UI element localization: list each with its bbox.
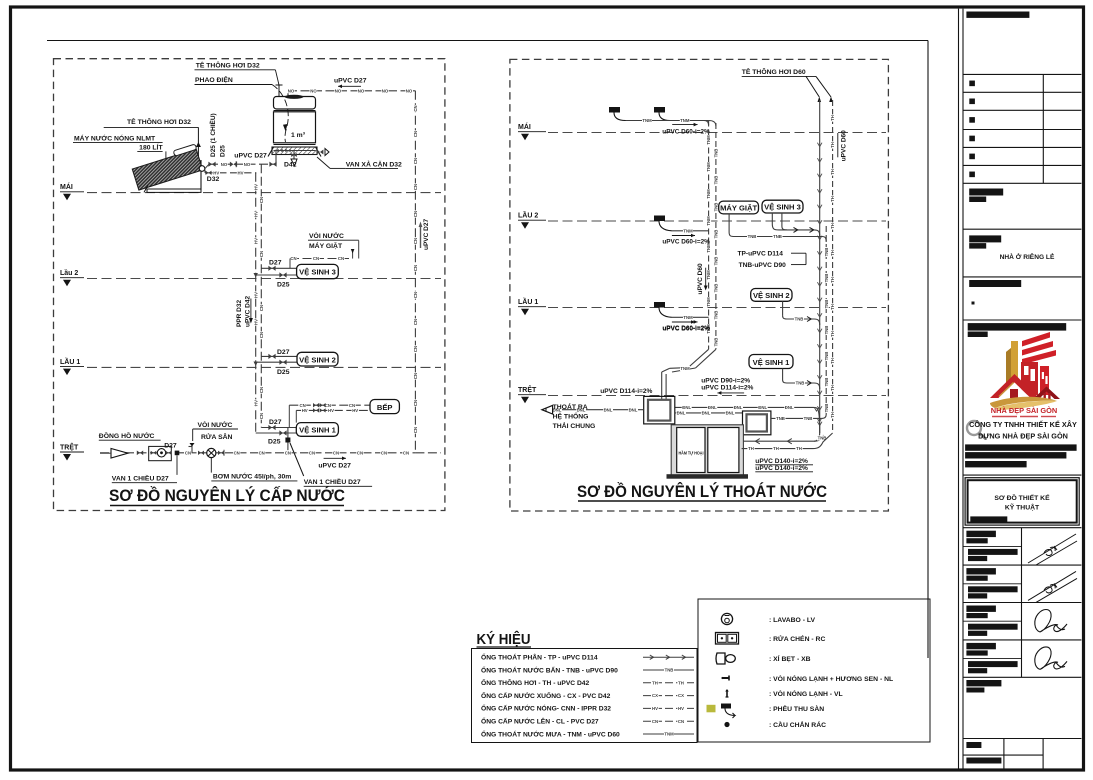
svg-text:: XÍ BẸT - XB: : XÍ BẸT - XB [769,654,811,663]
svg-text:uPVC D27: uPVC D27 [318,462,351,469]
svg-text:TNM: TNM [664,732,674,737]
heater collector connection node [199,166,205,172]
signature table [963,527,1081,529]
svg-text:D25: D25 [277,369,290,376]
label BOM NUOC 45l/ph, 30m [210,458,212,473]
svg-text:CN: CN [185,450,191,455]
svg-text:CX: CX [652,693,658,698]
svg-text:uPVC D140-i=2%: uPVC D140-i=2% [755,465,808,472]
signature scribble 2 [1035,647,1067,670]
roof drain 1 (phieu thu san) [609,107,620,113]
svg-text:VỆ SINH 3: VỆ SINH 3 [764,203,801,212]
svg-text:TNB: TNB [773,234,782,239]
svg-text:TH: TH [830,385,835,391]
svg-text:HV: HV [253,238,258,244]
svg-text:TNB: TNB [714,149,719,158]
svg-text:D25: D25 [277,282,290,289]
svg-text:CN: CN [413,427,418,433]
svg-text:MÁY GIẶT: MÁY GIẶT [720,204,757,213]
approval sketch 1 [1028,534,1077,565]
svg-text:BẾP: BẾP [377,402,393,412]
svg-text:TH: TH [830,358,835,364]
svg-text:VỆ SINH 1: VỆ SINH 1 [299,426,336,435]
table row bullet 3 [969,117,975,123]
manhole 1 (ho ga) [644,396,675,424]
svg-text:ĐNL: ĐNL [702,411,711,416]
rain collector pipe [626,120,709,122]
svg-text:CÔNG TY TNHH THIẾT KẾ XÂY: CÔNG TY TNHH THIẾT KẾ XÂY [969,419,1077,429]
vent stack TH uPVC D42 [832,100,834,430]
pipe to VS1 (D27) [261,427,296,429]
svg-text:CN: CN [413,346,418,352]
soil stack TP uPVC D114 (chevron line) [819,100,821,433]
svg-text:CN: CN [259,251,264,257]
legend symbol voi nong lanh VL [726,690,728,697]
svg-text:TH: TH [830,115,835,121]
svg-text:SƠ ĐỒ NGUYÊN LÝ CẤP NƯỚC: SƠ ĐỒ NGUYÊN LÝ CẤP NƯỚC [109,486,345,505]
svg-text:CN: CN [259,413,264,419]
svg-text:TNM: TNM [683,228,693,233]
svg-text:TNM: TNM [706,297,711,307]
legend symbol cau chan rac [724,722,729,727]
pipe to VS3 (D25 hot) [256,274,297,276]
svg-text:TH: TH [830,304,835,310]
tank inlet stub [287,91,289,97]
svg-text:D42: D42 [284,162,297,169]
drain branch to TNM riser [672,230,709,232]
tank top float cap [285,95,304,99]
tank drain valve D42 [293,151,295,160]
valve (tank outlet) [269,162,276,167]
svg-text:MÁI: MÁI [60,182,73,191]
svg-text:HV: HV [253,319,258,325]
table row bullet 1 [969,81,975,87]
svg-text:ĐNL: ĐNL [726,411,735,416]
section: cong trinh NHA O RIENG LE [969,235,1001,242]
svg-text:TRỆT: TRỆT [518,385,537,394]
legend symbol xi bet (toilet) [716,653,725,664]
label uPVC D27 (tret) [324,457,346,459]
junction node [175,451,180,456]
svg-text:CN: CN [259,450,265,455]
svg-text:CN: CN [652,719,658,724]
svg-text:CN: CN [413,105,418,111]
svg-text:TH: TH [830,196,835,202]
svg-text:BƠM NƯỚC 45l/ph, 30m: BƠM NƯỚC 45l/ph, 30m [213,472,291,481]
floor line LAU 2 (right diagram) [548,220,886,222]
septic tank HAM TU HOAI [671,425,743,476]
svg-text:uPVC D27: uPVC D27 [234,153,267,160]
svg-text:180 LÍT: 180 LÍT [139,143,163,152]
svg-text:NO: NO [406,88,413,93]
tank vent pipe [275,70,279,85]
floor line MAI (left diagram) [87,192,441,194]
svg-text:CN: CN [290,256,296,261]
svg-text:uPVC D42: uPVC D42 [244,296,251,327]
stack elbow into sewer line [812,407,820,433]
svg-text:CN: CN [413,184,418,190]
right diagram dashed boundary [510,59,889,511]
svg-text:TNM: TNM [706,135,711,145]
fixture box VE SINH 1 [296,423,338,437]
svg-text:TNB: TNB [714,338,719,347]
svg-text:TNB: TNB [824,326,829,335]
title block info table [963,73,1081,75]
svg-text:CN: CN [413,319,418,325]
svg-text:TNB: TNB [748,234,757,239]
sewer line manhole1 to manhole2 [675,412,743,414]
svg-text:THẢI CHUNG: THẢI CHUNG [553,421,596,430]
svg-text:uPVC D60-i=2%: uPVC D60-i=2% [662,129,710,136]
svg-text:CN: CN [403,450,409,455]
svg-text:TH: TH [830,412,835,418]
VS1 waste drop [782,369,784,381]
svg-text:TNB: TNB [665,668,674,673]
septic inlet line (TP+TNB) [743,440,814,442]
title block top section (project name, redacted) [966,12,1029,18]
PHAO DIEN float leader (dashed curve) [272,85,288,143]
pipe to VS2 (D25) [256,361,297,363]
svg-text:TNB: TNB [824,248,829,257]
svg-text:DỰNG NHÀ ĐẸP SÀI GÒN: DỰNG NHÀ ĐẸP SÀI GÒN [978,432,1068,441]
svg-text:VỆ SINH 2: VỆ SINH 2 [299,355,336,364]
floor drain (phieu thu san) [654,216,665,222]
svg-text:CN: CN [309,450,315,455]
svg-text:SƠ ĐỒ NGUYÊN LÝ THOÁT NƯỚC: SƠ ĐỒ NGUYÊN LÝ THOÁT NƯỚC [577,482,827,501]
svg-text:CN: CN [313,256,319,261]
sewer line DNL (stack to manhole 1) [675,406,812,408]
svg-text:VỆ SINH 1: VỆ SINH 1 [753,358,790,367]
manhole 2 (ho ga) [743,411,771,435]
table row bullet 5 [969,154,975,160]
floor line MAI (right diagram) [548,132,886,134]
svg-text:CN: CN [413,131,418,137]
svg-text:KỸ THUẬT: KỸ THUẬT [1005,503,1040,512]
label uPVC D60-i=2% [672,321,695,323]
svg-text:ĐNL: ĐNL [604,407,613,412]
svg-text:TNM: TNM [642,118,652,123]
svg-text:TNB: TNB [776,416,785,421]
water tank base (hatched skid) [272,147,317,155]
svg-text:: RỬA CHÉN - RC: : RỬA CHÉN - RC [769,634,825,643]
legend symbol box [698,599,930,742]
svg-text:ĐNL: ĐNL [785,405,794,410]
svg-text:uPVC D140-i=2%: uPVC D140-i=2% [755,458,808,465]
svg-text:HV: HV [652,706,658,711]
notes section (redacted) [966,680,1001,686]
svg-text:uPVC D90-i=2%: uPVC D90-i=2% [701,377,750,384]
drop from VS1 branch to main [287,428,289,453]
svg-text:NO: NO [310,88,317,93]
svg-text:TP-uPVC D114: TP-uPVC D114 [738,251,784,258]
svg-text:RỬA SÂN: RỬA SÂN [201,432,233,441]
svg-text:CN: CN [259,332,264,338]
legend line-type box [472,649,698,743]
svg-text:TH: TH [830,331,835,337]
svg-text:ĐNL: ĐNL [629,407,638,412]
svg-text:HV: HV [253,292,258,298]
legend symbol rua chen (sink) [716,633,739,645]
redacted address lines [965,444,1077,450]
label uPVC D60-i=2% (roof) [672,124,697,126]
svg-text:TH: TH [830,277,835,283]
pipe hot water from heater (HV) [205,172,256,174]
table row bullet 6 [969,172,975,178]
svg-text:MÁI: MÁI [518,122,531,131]
svg-text:CN: CN [413,211,418,217]
svg-text:HV: HV [328,408,334,413]
svg-text:VỆ SINH 2: VỆ SINH 2 [753,291,790,300]
signature row 1 [963,545,1022,547]
heater support frame [200,160,202,190]
svg-text:CN: CN [234,450,240,455]
left diagram dashed boundary [54,59,445,511]
label uPVC D60-i=2% [672,235,695,237]
svg-text:: PHỄU THU SÀN: : PHỄU THU SÀN [769,704,824,713]
magnifier watermark [967,421,981,435]
svg-text:CN: CN [259,387,264,393]
washing machine waste line TNB [728,214,730,232]
svg-text:: LAVABO - LV: : LAVABO - LV [769,617,816,624]
under-tank manifold [274,150,316,152]
svg-text:NO: NO [382,88,389,93]
svg-text:VÒI NƯỚC: VÒI NƯỚC [198,420,233,429]
svg-text:CN: CN [413,400,418,406]
drain branch to TNM riser [672,316,709,318]
roof drain 2 [654,107,665,113]
svg-text:TNM: TNM [706,189,711,199]
inner frame right line [927,41,929,659]
svg-text:HV: HV [352,408,358,413]
solar water heater (MAY NUOC NONG NLMT) panel [131,144,203,190]
svg-text:PHAO ĐIỆN: PHAO ĐIỆN [195,75,233,84]
vent connections (diagonals) [806,76,819,97]
fixture box VE SINH 1 (right) [749,355,793,369]
yard faucet VOI NUOC RUA SAN [191,445,193,453]
signature row 2 [963,583,1022,585]
svg-text:TH: TH [748,446,754,451]
svg-text:NO: NO [358,88,365,93]
table row bullet 4 [969,136,975,142]
label VAN 1 CHIEU D27 (left) [176,455,178,475]
svg-text:TNB: TNB [824,378,829,387]
legend symbol lavabo [721,613,732,624]
svg-text:HV: HV [238,170,244,175]
svg-text:D27: D27 [269,260,282,267]
svg-text:HV: HV [213,170,219,175]
water tank body [274,112,316,143]
water meter assembly DONG HO NUOC [149,446,172,460]
svg-text:TÊ THÔNG HƠI D32: TÊ THÔNG HƠI D32 [196,61,260,70]
svg-text:CX: CX [678,693,684,698]
legend symbol phieu thu san [707,705,716,713]
svg-text:Lầu 2: Lầu 2 [60,268,78,277]
svg-text:ĐNL: ĐNL [734,405,743,410]
floor line TRET (right diagram) [548,395,886,397]
flow arrows on risers [254,273,258,278]
table row bullet 2 [969,99,975,105]
label uPVC D60-i=2% (jog) [672,321,698,323]
svg-text:TNB: TNB [714,176,719,185]
svg-text:VÒI NƯỚC: VÒI NƯỚC [309,231,344,240]
signature row 4 [963,658,1022,660]
valve before meter [137,450,143,455]
svg-text:TNM: TNM [683,315,693,320]
svg-text:TNB: TNB [824,352,829,361]
svg-text:NO: NO [335,88,342,93]
valve (heater outlet) [206,171,212,175]
fixture box VE SINH 3 (right) [762,200,803,213]
inlet strainer [111,449,128,459]
svg-text:CN: CN [285,450,291,455]
bottom mini table [1003,739,1005,769]
svg-text:TNB: TNB [796,381,805,386]
svg-text:HV: HV [678,706,684,711]
svg-text:TNB: TNB [714,203,719,212]
svg-text:NO: NO [288,88,295,93]
svg-text:VỆ SINH 3: VỆ SINH 3 [299,268,336,277]
svg-text:TNB: TNB [804,416,813,421]
svg-text:D32: D32 [207,176,220,183]
svg-text:TNB-uPVC D90: TNB-uPVC D90 [739,262,787,269]
svg-text:uPVC D60: uPVC D60 [840,130,847,161]
svg-text:CN: CN [413,292,418,298]
svg-text:ĐNL: ĐNL [677,411,686,416]
title block left double line [958,9,960,769]
svg-text:TNM: TNM [680,118,690,123]
section: chu dau tu (redacted) [969,189,1003,196]
svg-text:1 m³: 1 m³ [291,132,306,139]
fixture box VE SINH 2 (right) [751,289,792,302]
waste stack TNB uPVC D90 [825,226,827,413]
legend symbol voi nong lanh + huong sen [723,677,729,679]
svg-text:TNB: TNB [714,311,719,320]
branch to washing machine (VOI NUOC MAY GIAT) [290,258,353,260]
svg-text:ĐNL: ĐNL [682,405,691,410]
svg-text:CN: CN [333,450,339,455]
outfall line to public sewer [553,409,644,411]
svg-text:MÁY NƯỚC NÓNG NLMT: MÁY NƯỚC NÓNG NLMT [74,134,156,143]
svg-text:ĐNL: ĐNL [708,405,717,410]
svg-text:TH: TH [830,169,835,175]
svg-text:TNB: TNB [714,230,719,239]
svg-text:KÝ HIỆU: KÝ HIỆU [477,630,531,648]
svg-text:CN: CN [259,305,264,311]
svg-text:TNM: TNM [706,162,711,172]
svg-text:CN: CN [357,450,363,455]
svg-text:TH: TH [830,142,835,148]
fixture box BEP [370,400,399,414]
svg-text:uPVC D27: uPVC D27 [423,219,430,250]
svg-text:D27: D27 [269,419,282,426]
svg-text:NHÀ Ở RIÊNG LẺ: NHÀ Ở RIÊNG LẺ [1000,252,1055,261]
svg-text:TH: TH [830,223,835,229]
approval sketch 2 [1028,571,1077,602]
svg-text:TNM: TNM [706,216,711,226]
svg-text:uPVC D60: uPVC D60 [697,263,704,294]
section: don vi thiet ke [968,323,1066,331]
svg-text:CN: CN [259,197,264,203]
svg-text:TH: TH [773,446,779,451]
svg-text:TNB: TNB [714,284,719,293]
drawing title box (double border) [965,478,1079,525]
svg-text:NO: NO [221,162,228,167]
svg-text:TNB: TNB [824,274,829,283]
check valve after pump [218,451,224,455]
VS2 waste drop [782,301,784,316]
svg-text:TNB: TNB [795,317,804,322]
svg-text:TH: TH [652,680,658,685]
svg-text:HV: HV [302,408,308,413]
pipe to VS1 (D25) [256,432,297,434]
VS3 waste drop (TP) [771,213,773,224]
svg-text:CN: CN [413,373,418,379]
svg-text:ĐNL: ĐNL [758,405,767,410]
pipe to kitchen BEP (CN) [289,404,370,406]
svg-text:HV: HV [253,184,258,190]
pipe to kitchen BEP (HV) [296,409,370,411]
company logo NHA DEP SAI GON [990,332,1060,410]
svg-text:: VÒI NÓNG LẠNH + HƯƠNG SEN -: : VÒI NÓNG LẠNH + HƯƠNG SEN - NL [769,674,893,683]
riser uPVC D27 (right, pump to tank) [414,91,416,453]
svg-text:THOÁT RA: THOÁT RA [553,402,588,411]
pipe to VS3 (D27 cold) [261,267,296,269]
leader to VAN 1 CHIEU D27 (right) [290,443,304,476]
svg-text:HẦM TỰ HOẠI: HẦM TỰ HOẠI [679,451,704,456]
svg-text:CN: CN [381,450,387,455]
water tank 1m3 lid [274,97,316,110]
rain downpipe TNM (double) [708,121,710,350]
inner frame top line [47,40,928,42]
svg-text:TÊ THÔNG HƠI D60: TÊ THÔNG HƠI D60 [742,67,806,76]
svg-text:uPVC D60-i=2%: uPVC D60-i=2% [662,325,710,332]
main supply pipe at TRET [100,452,415,454]
svg-text:: VÒI NÓNG LẠNH - VL: : VÒI NÓNG LẠNH - VL [769,689,843,698]
riser PPR D32 (hot, HV) [255,173,257,433]
svg-text:D25: D25 [220,145,227,157]
line TNB from manhole2 [771,417,814,419]
svg-text:TNM: TNM [706,270,711,280]
floor line Lau 2 (left diagram) [87,278,441,280]
svg-text:TÊ THÔNG HƠI D32: TÊ THÔNG HƠI D32 [127,117,191,126]
svg-text:HV: HV [253,400,258,406]
svg-text:MÁY GIẶT: MÁY GIẶT [309,241,343,250]
sludge valve VAN XA CAN D32 [317,150,324,155]
heater vent pipe [197,127,199,156]
svg-text:TRỆT: TRỆT [60,442,79,451]
svg-text:CN: CN [413,158,418,164]
septic vent line TH [742,448,813,450]
signature row 3 [963,620,1022,622]
svg-text:uPVC D114-i=2%: uPVC D114-i=2% [600,388,652,395]
svg-text:D25: D25 [268,439,281,446]
svg-text:D27: D27 [164,443,177,450]
svg-text:VAN XẢ CẶN D32: VAN XẢ CẶN D32 [346,160,402,169]
svg-text:uPVC D27: uPVC D27 [334,78,367,85]
riser uPVC D42 (cold, CN) [260,164,262,427]
svg-text:CN: CN [413,265,418,271]
section: dia diem (redacted) [969,280,1021,287]
water pump BOM NUOC [207,448,216,457]
signature scribble 1 [1035,610,1067,633]
fixture box VE SINH 3 [297,264,339,278]
svg-text:HV: HV [253,211,258,217]
pipe uPVC D27 (pump discharge, roof run) [288,90,415,92]
svg-text:uPVC D114-i=2%: uPVC D114-i=2% [701,385,753,392]
svg-text:TH: TH [678,680,684,685]
fixture box MAY GIAT [719,201,759,214]
svg-text:PPR D32: PPR D32 [236,300,243,327]
